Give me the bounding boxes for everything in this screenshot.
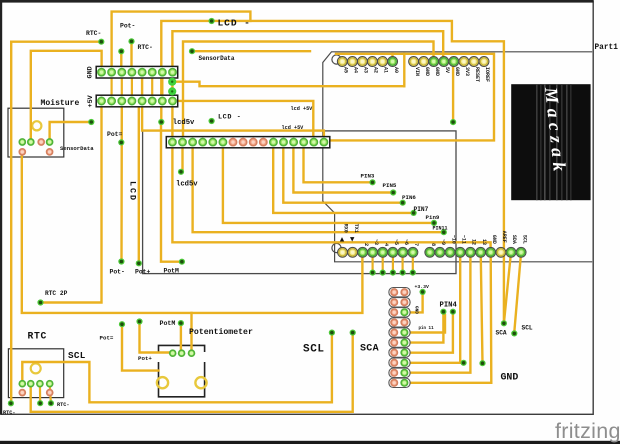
via PIN7 — [411, 210, 417, 216]
svg-text:8: 8 — [430, 243, 436, 246]
svg-text:~6: ~6 — [403, 239, 409, 245]
svg-text:SCL: SCL — [68, 350, 86, 361]
svg-text:5V: 5V — [444, 67, 450, 73]
svg-text:IOREF: IOREF — [484, 67, 490, 82]
via LCD- mid — [209, 118, 215, 124]
wire top nest outer — [112, 12, 251, 73]
svg-text:Pot+: Pot+ — [135, 269, 151, 276]
arduino digital header 8-SCL — [425, 247, 526, 257]
via digital stub via — [370, 270, 376, 276]
svg-text:~10: ~10 — [450, 235, 456, 244]
wire RTC SCL — [22, 333, 332, 403]
via Pot- top — [118, 48, 124, 54]
wire PIN4b to row7 — [410, 312, 453, 353]
svg-text:SCL: SCL — [521, 235, 527, 244]
wire LCD- long right — [161, 21, 504, 323]
svg-text:RTC-: RTC- — [86, 30, 101, 37]
svg-text:A2: A2 — [373, 67, 379, 73]
via lcd5v 2 — [178, 169, 184, 175]
shield Part1 outline — [323, 52, 592, 262]
via digital stub via — [380, 270, 386, 276]
wire digital pad stub — [402, 252, 404, 272]
svg-text:Pot=: Pot= — [107, 131, 123, 138]
wire stub up via rtc- — [130, 42, 132, 73]
via Pot= low — [119, 321, 125, 327]
via RTC- bl3 — [48, 400, 54, 406]
svg-text:~5: ~5 — [393, 239, 399, 245]
svg-text:A3: A3 — [363, 67, 369, 73]
wire +3.3V to row3 — [410, 292, 423, 313]
arduino power header — [409, 57, 489, 67]
svg-text:GND: GND — [414, 306, 419, 314]
wire RTC- top-left long — [11, 42, 101, 404]
svg-text:Potentiometer: Potentiometer — [189, 327, 253, 337]
svg-text:TX1: TX1 — [353, 224, 359, 233]
wire +5V chain LCD1 — [172, 31, 443, 142]
svg-text:Pot+: Pot+ — [138, 355, 152, 362]
wire LCD14 to PIN3 — [304, 147, 373, 182]
wire PIN4a to row6 — [410, 312, 444, 343]
shield mounting hole bottom — [332, 243, 341, 252]
header GND 8-pin — [96, 66, 178, 78]
wire RTC SCA bottom — [31, 333, 353, 412]
svg-text:SCA: SCA — [496, 330, 507, 337]
part label Maczak black box — [511, 84, 590, 200]
svg-text:AREF: AREF — [501, 231, 507, 243]
via LCD- top — [209, 18, 215, 24]
svg-text:GND: GND — [454, 67, 460, 76]
wire GND pad to row10 — [410, 252, 492, 382]
svg-text:PIN3: PIN3 — [361, 173, 375, 180]
svg-text:SCL: SCL — [522, 325, 533, 332]
wire pad12 to row9 — [410, 252, 471, 372]
via lcd5v — [158, 119, 164, 125]
svg-text:RTC-: RTC- — [138, 44, 153, 51]
via RTC- b — [128, 38, 134, 44]
wire stub up via pot- — [120, 51, 122, 72]
svg-text:LCD: LCD — [128, 181, 138, 202]
via PIN4 a — [440, 309, 446, 315]
wire pad11 to row8 — [410, 252, 460, 362]
wire moisture GND to header — [31, 51, 102, 142]
svg-text:lcd5v: lcd5v — [173, 119, 195, 127]
via SensorData moisture — [88, 119, 94, 125]
via PotM mid — [179, 259, 185, 265]
svg-text:A5: A5 — [343, 67, 349, 73]
wire LCD1 to GND pad — [172, 147, 490, 252]
RTC box — [8, 349, 63, 398]
via digital stub via — [410, 270, 416, 276]
wire power pad5 via stub — [452, 62, 454, 123]
svg-text:LCD -: LCD - — [218, 113, 241, 121]
wire digital pad stub — [412, 252, 414, 272]
wire digital pad stub — [372, 252, 374, 272]
Potentiometer box — [159, 345, 205, 396]
wire pad13 to via — [481, 252, 483, 363]
junction 5V junction — [168, 87, 176, 95]
svg-text:lcd5v: lcd5v — [176, 181, 198, 189]
wire pot+ to pad1 — [140, 322, 173, 354]
svg-text:2: 2 — [363, 243, 369, 246]
svg-text:PIN7: PIN7 — [414, 206, 429, 213]
via PIN3 — [369, 179, 375, 185]
wire moisture to D2 long — [22, 151, 363, 313]
wire lcd5v down to PotM — [161, 122, 182, 262]
via RTC 2P — [37, 299, 43, 305]
Moisture hole — [32, 121, 41, 130]
wire SCL slant — [514, 252, 521, 332]
wire +5V pad8 to LCD15 — [173, 101, 314, 142]
wire header interlink stub — [151, 72, 153, 101]
via +3.3V — [420, 289, 426, 295]
wire RTC pad3 stub — [39, 384, 41, 404]
svg-text:Pot-: Pot- — [120, 23, 135, 30]
via SensorData — [189, 48, 195, 54]
header +5V 8-pin — [96, 95, 178, 107]
wire LCD11 to PIN7 — [273, 147, 413, 213]
svg-text:SCL: SCL — [303, 343, 325, 355]
svg-text:RX0: RX0 — [343, 224, 349, 233]
via digital stub via — [390, 270, 396, 276]
svg-text:~9: ~9 — [440, 239, 446, 245]
svg-text:A1: A1 — [383, 67, 389, 73]
arduino digital header 0-7 — [338, 247, 418, 257]
svg-text:fritzing: fritzing — [555, 419, 620, 443]
wire pad3 up join — [190, 313, 192, 353]
via Pot= mid — [118, 139, 124, 145]
via PIN5 — [390, 189, 396, 195]
LCD16x2 part box — [143, 131, 456, 274]
wire 5V rail under shield — [328, 54, 495, 141]
shield mounting hole top — [332, 55, 341, 64]
wire LCD13 to PIN5 — [293, 147, 393, 193]
frame top thick — [0, 0, 594, 3]
svg-text:13: 13 — [481, 239, 487, 245]
svg-text:7: 7 — [413, 243, 419, 246]
wire header interlink stub — [121, 72, 123, 101]
svg-text:A4: A4 — [353, 67, 359, 73]
svg-text:PotM: PotM — [160, 320, 176, 327]
wire GND chain LCD2 — [183, 42, 434, 143]
wire LCD2 stub via — [181, 147, 183, 172]
svg-text:SDA: SDA — [511, 235, 517, 244]
svg-text:+5V: +5V — [87, 94, 95, 107]
via PIN4 b — [450, 309, 456, 315]
wire header interlink stub — [131, 72, 133, 101]
svg-text:pin 11: pin 11 — [419, 326, 435, 331]
svg-text:SCA: SCA — [360, 343, 379, 354]
svg-text:Pin9: Pin9 — [426, 214, 440, 221]
svg-text:12: 12 — [471, 239, 477, 245]
via row8 junction — [461, 360, 467, 366]
wire moisture SensorData stub — [50, 122, 92, 142]
wire LCD12 to PIN6 — [283, 147, 402, 203]
svg-text:VIN: VIN — [414, 67, 420, 76]
via Pin9 — [431, 220, 437, 226]
wire row5 pin11 wire — [410, 315, 445, 333]
svg-text:~3: ~3 — [373, 239, 379, 245]
via digital stub via — [400, 270, 406, 276]
image bottom border — [0, 441, 620, 444]
Potentiometer hole left — [157, 377, 168, 388]
svg-text:~11: ~11 — [460, 235, 466, 244]
via SCA mid — [350, 330, 356, 336]
wire +5V pad5 to LCD16 — [142, 72, 324, 142]
svg-text:lcd +5V: lcd +5V — [291, 106, 314, 112]
RTC hole — [31, 363, 41, 373]
wire pot+ upper tail — [138, 107, 140, 263]
svg-text:RTC-: RTC- — [3, 410, 15, 416]
via RTC- a — [98, 39, 104, 45]
via PotM low — [178, 320, 184, 326]
svg-text:+3.3V: +3.3V — [415, 284, 430, 290]
svg-text:Part1: Part1 — [595, 44, 619, 52]
svg-text:GND: GND — [87, 66, 95, 78]
svg-text:GND: GND — [434, 67, 440, 76]
wire A0 net run — [172, 82, 404, 87]
wire LCD6 to Pin9 — [223, 147, 434, 223]
wire RTC2P run — [41, 101, 102, 303]
header LCD 16-pin — [166, 137, 329, 148]
via PIN6 — [400, 200, 406, 206]
via pad13 via — [479, 360, 485, 366]
via RTC- bl — [8, 400, 14, 406]
svg-text:LCD -: LCD - — [218, 18, 251, 29]
svg-text:PIN4: PIN4 — [440, 302, 458, 310]
wire header interlink stub — [110, 72, 112, 101]
I2C LCD backpack 2x10 header — [389, 288, 410, 297]
wire LCD3 to PIN11 — [193, 147, 444, 232]
RX TX arrows — [340, 237, 355, 241]
wire digital pad stub — [382, 252, 384, 272]
wire SDA slant — [504, 252, 511, 322]
frame left thick — [0, 0, 2, 415]
via SCA br — [501, 320, 507, 326]
via Pot+ low — [136, 318, 142, 324]
svg-text:3V3: 3V3 — [464, 67, 470, 76]
svg-text:RTC 2P: RTC 2P — [45, 290, 68, 297]
svg-text:GND: GND — [424, 67, 430, 76]
svg-text:PotM: PotM — [164, 268, 180, 275]
svg-text:RESET: RESET — [474, 67, 480, 82]
svg-text:SensorData: SensorData — [60, 145, 94, 152]
Potentiometer hole right — [195, 377, 206, 388]
via Pot+ mid — [136, 260, 142, 266]
via SCL mid — [329, 330, 335, 336]
via PIN11 — [441, 229, 447, 235]
via Pot- mid — [118, 258, 124, 264]
svg-text:PIN5: PIN5 — [383, 182, 397, 189]
svg-text:Pot=: Pot= — [100, 335, 114, 342]
wire SensorData run — [192, 50, 310, 52]
wire A0 stub — [391, 54, 393, 58]
wire header interlink stub — [161, 72, 163, 101]
wire pot= col — [120, 101, 123, 262]
Moisture sensor box — [8, 108, 64, 157]
via RTC- bl2 — [37, 400, 43, 406]
svg-text:GND: GND — [491, 235, 497, 244]
svg-text:lcd +5V: lcd +5V — [282, 125, 305, 131]
via power5 via — [450, 119, 456, 125]
via SCL br — [511, 330, 517, 336]
arduino analog header A5-A0 — [337, 57, 397, 67]
svg-text:RTC-: RTC- — [57, 402, 69, 408]
wire rail junction drop — [403, 54, 405, 86]
wire digital pad stub — [392, 252, 394, 272]
svg-text:GND: GND — [501, 372, 519, 383]
svg-text:PIN6: PIN6 — [402, 194, 416, 201]
svg-text:Moisture: Moisture — [41, 99, 80, 108]
wire potM to pad2 — [180, 323, 182, 353]
potentiometer pads — [170, 350, 195, 356]
wire RTC pad4 stub — [50, 384, 51, 404]
svg-text:RTC: RTC — [28, 330, 48, 341]
svg-text:SensorData: SensorData — [199, 55, 235, 62]
svg-text:Pot-: Pot- — [110, 269, 125, 276]
moisture pads — [19, 139, 53, 155]
svg-text:A0: A0 — [393, 67, 399, 73]
svg-text:PIN11: PIN11 — [433, 226, 448, 232]
svg-text:4: 4 — [383, 243, 389, 246]
RTC pads — [19, 381, 53, 396]
junction A0 junction — [168, 78, 176, 86]
wire pot= lower — [122, 324, 159, 370]
